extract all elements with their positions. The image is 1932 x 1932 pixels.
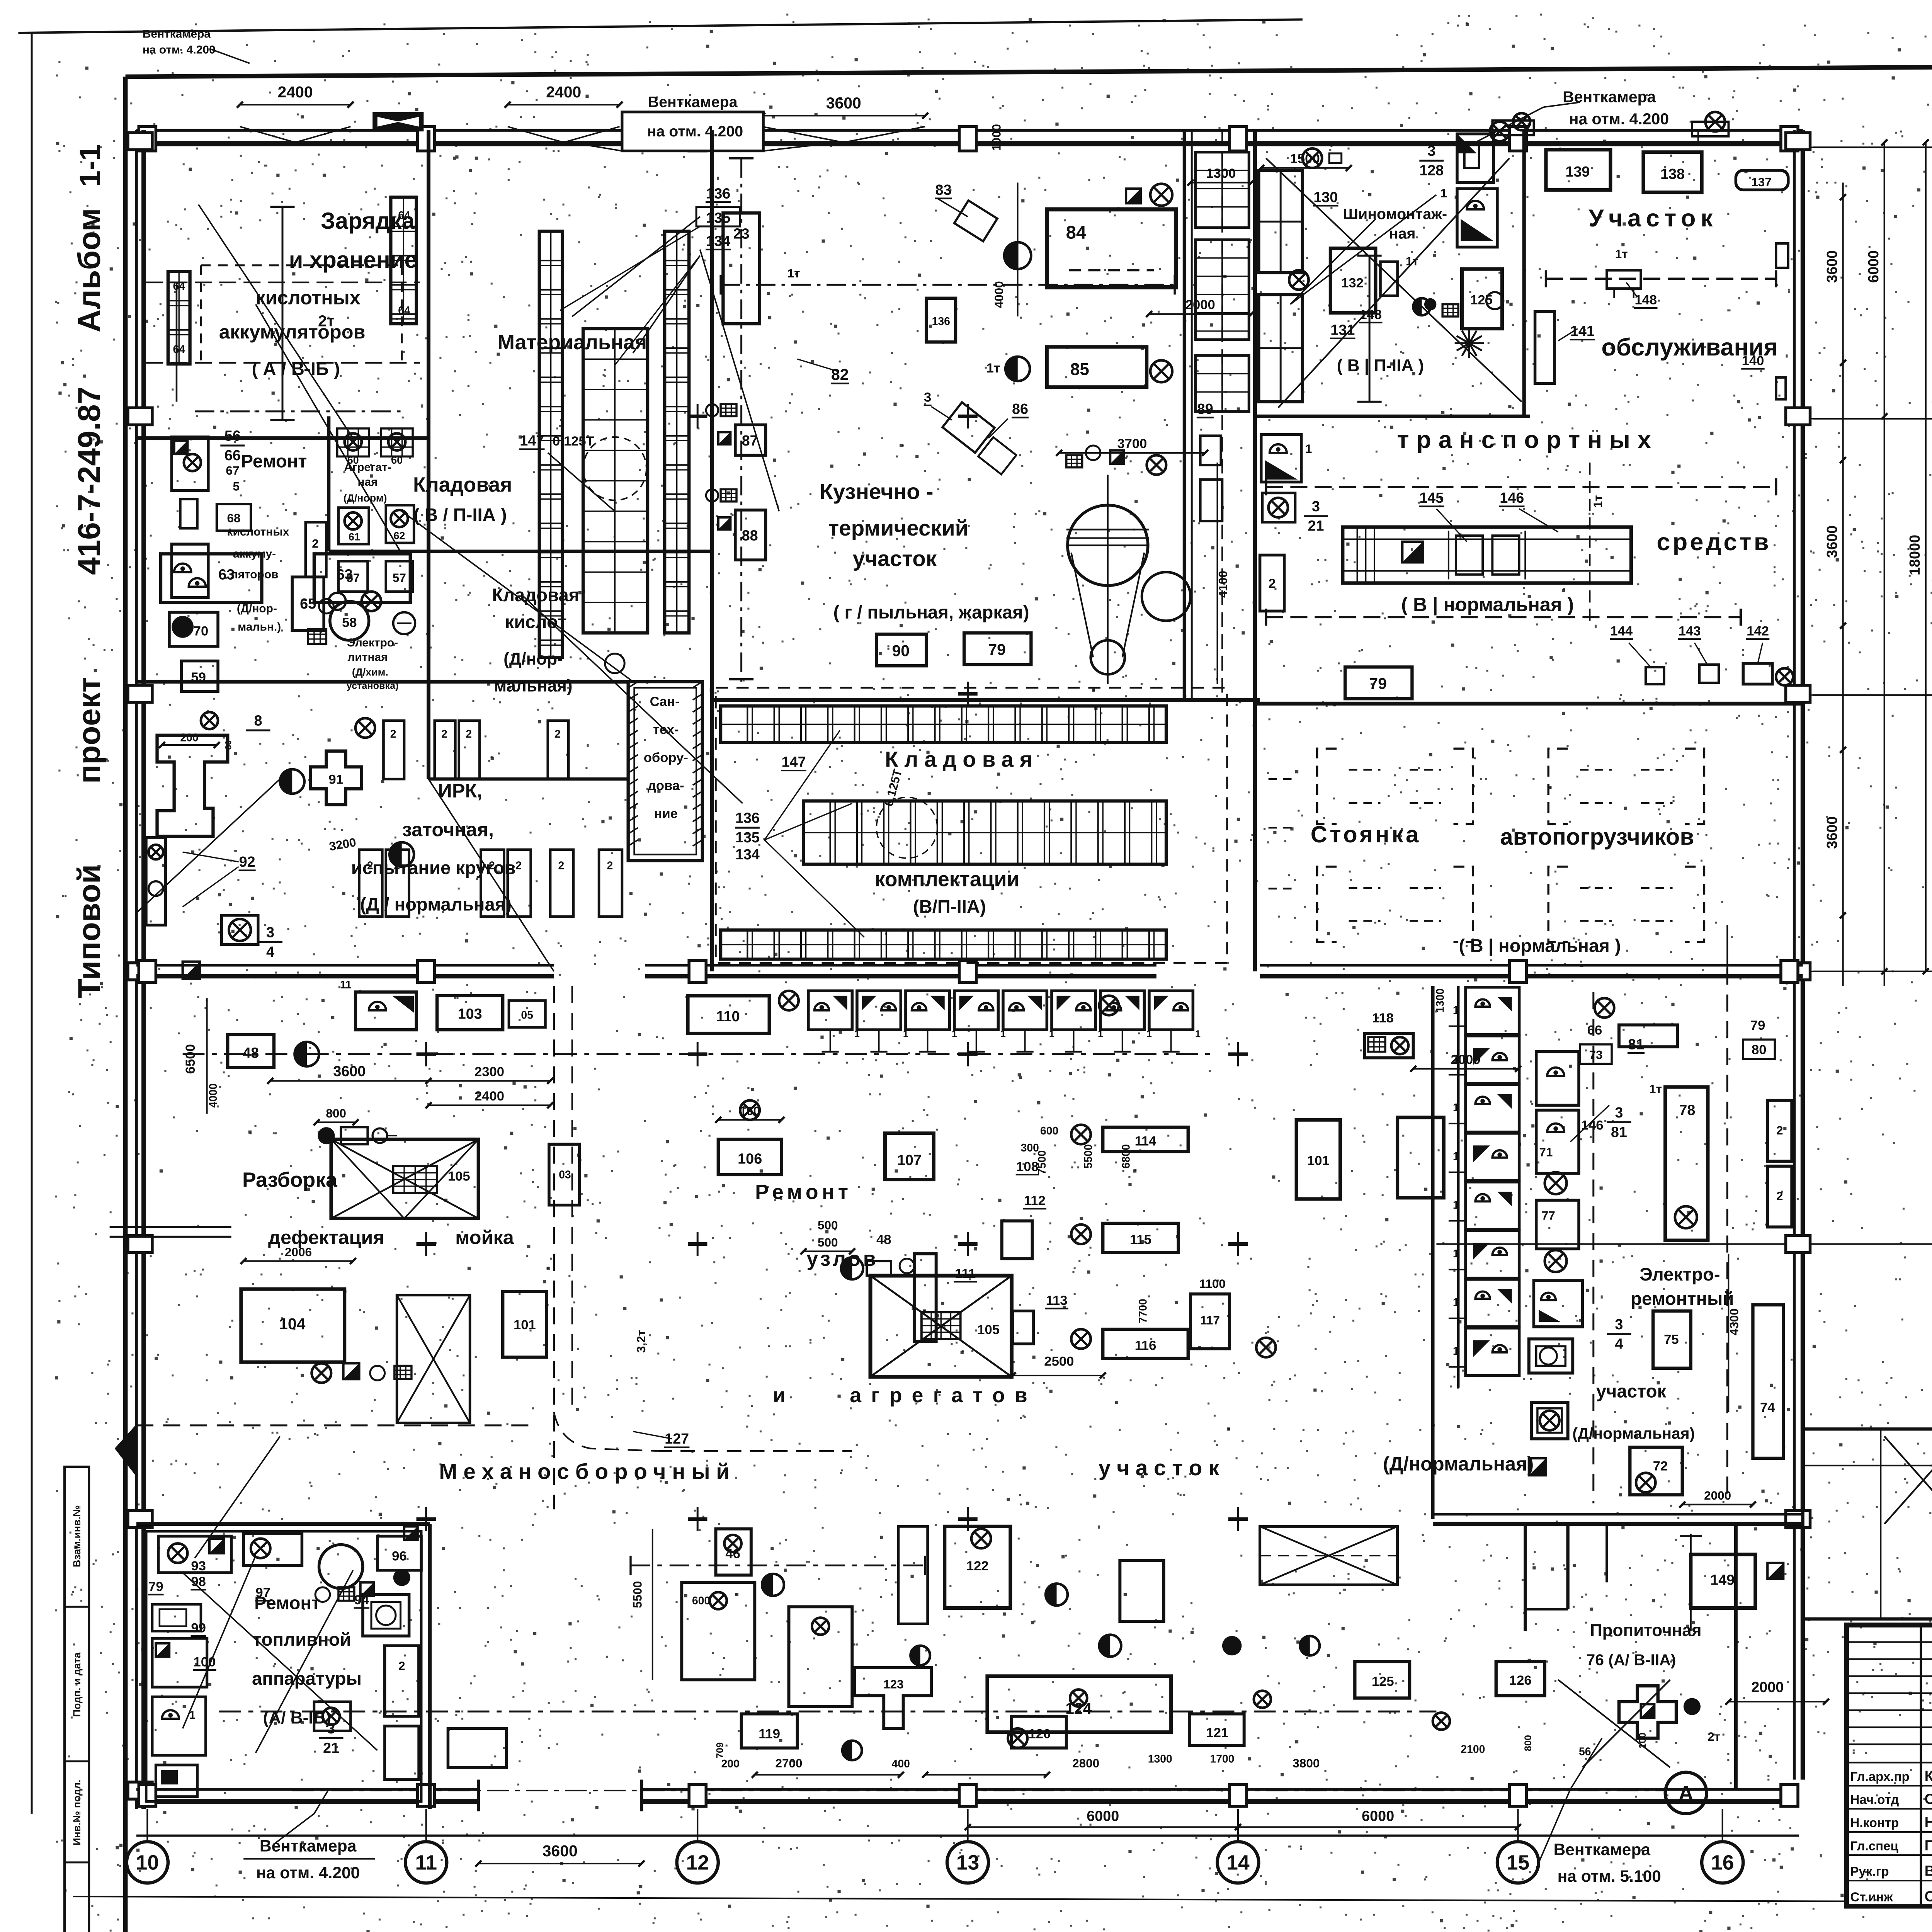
equipment: forge-thermal section xyxy=(723,213,760,324)
svg-text:1т: 1т xyxy=(1649,1082,1662,1096)
svg-text:113: 113 xyxy=(1046,1293,1068,1308)
svg-text:2: 2 xyxy=(1776,1123,1783,1137)
svg-text:на отм. 4.200: на отм. 4.200 xyxy=(143,44,216,56)
shelving racks 134-136 xyxy=(721,706,1166,743)
svg-text:136: 136 xyxy=(932,315,950,328)
svg-text:14: 14 xyxy=(1226,1852,1250,1874)
svg-text:93: 93 xyxy=(191,1559,206,1573)
svg-text:600: 600 xyxy=(1040,1125,1058,1137)
svg-text:67: 67 xyxy=(226,464,239,478)
svg-text:101: 101 xyxy=(514,1318,536,1332)
svg-text:1т: 1т xyxy=(787,266,800,280)
svg-text:86: 86 xyxy=(1012,401,1028,417)
svg-text:56: 56 xyxy=(224,428,241,444)
svg-text:3600: 3600 xyxy=(826,94,861,112)
svg-text:136: 136 xyxy=(735,810,760,827)
svg-text:2: 2 xyxy=(466,728,472,740)
svg-text:58: 58 xyxy=(342,615,357,630)
svg-text:127: 127 xyxy=(665,1431,689,1447)
svg-text:143: 143 xyxy=(1679,624,1701,638)
svg-text:2800: 2800 xyxy=(1072,1756,1099,1770)
svg-text:литная: литная xyxy=(347,651,388,664)
svg-text:84: 84 xyxy=(1066,222,1087,243)
svg-text:транспортных: транспортных xyxy=(1397,426,1658,453)
svg-text:мальн.): мальн.) xyxy=(238,621,281,633)
svg-text:1: 1 xyxy=(1305,442,1312,456)
svg-text:68: 68 xyxy=(227,511,240,525)
svg-text:148: 148 xyxy=(1359,307,1382,322)
svg-text:мальная): мальная) xyxy=(494,676,572,695)
svg-text:2: 2 xyxy=(558,859,565,872)
svg-text:75: 75 xyxy=(1664,1332,1679,1347)
svg-text:119: 119 xyxy=(759,1727,780,1742)
svg-text:83: 83 xyxy=(935,182,952,198)
svg-text:21: 21 xyxy=(1308,518,1324,534)
svg-text:64: 64 xyxy=(398,209,410,222)
svg-text:118: 118 xyxy=(1372,1011,1394,1026)
svg-text:104: 104 xyxy=(279,1315,306,1333)
svg-text:138: 138 xyxy=(1660,166,1685,182)
svg-text:1: 1 xyxy=(1453,1150,1459,1163)
svg-text:2: 2 xyxy=(489,859,495,872)
svg-text:62: 62 xyxy=(394,530,405,542)
svg-text:установка): установка) xyxy=(347,680,399,691)
svg-text:79: 79 xyxy=(1369,675,1387,692)
svg-text:108: 108 xyxy=(1016,1160,1039,1174)
svg-text:1300: 1300 xyxy=(1434,988,1446,1013)
svg-text:Павлов: Павлов xyxy=(1925,1837,1932,1854)
svg-text:142: 142 xyxy=(1747,624,1769,638)
svg-text:146: 146 xyxy=(1500,490,1524,506)
svg-text:2: 2 xyxy=(441,728,447,740)
svg-text:117: 117 xyxy=(1200,1313,1220,1327)
svg-text:3600: 3600 xyxy=(1824,250,1840,283)
svg-text:1: 1 xyxy=(1453,1248,1459,1260)
machine 78 xyxy=(1665,1087,1708,1240)
svg-text:132: 132 xyxy=(1341,276,1364,290)
svg-text:124: 124 xyxy=(1065,1700,1092,1718)
svg-text:80: 80 xyxy=(224,740,233,750)
svg-text:1: 1 xyxy=(1453,1102,1459,1114)
svg-text:3600: 3600 xyxy=(333,1063,366,1080)
svg-text:105: 105 xyxy=(448,1169,470,1184)
svg-text:Материальная: Материальная xyxy=(497,331,647,354)
svg-text:130: 130 xyxy=(1313,189,1338,206)
svg-text:1100: 1100 xyxy=(1199,1277,1226,1291)
washing machine 105 xyxy=(331,1139,478,1219)
svg-text:66: 66 xyxy=(1587,1023,1602,1038)
svg-text:Пропиточная: Пропиточная xyxy=(1590,1621,1702,1640)
svg-text:6800: 6800 xyxy=(1120,1144,1133,1168)
svg-text:3,2т: 3,2т xyxy=(634,1330,648,1353)
svg-text:комплектации: комплектации xyxy=(875,868,1020,891)
svg-text:( В / П-IIА ): ( В / П-IIА ) xyxy=(413,505,507,525)
svg-text:1: 1 xyxy=(1440,186,1447,200)
svg-text:на отм. 4.200: на отм. 4.200 xyxy=(1569,110,1669,128)
svg-text:Кузнечно -: Кузнечно - xyxy=(820,480,933,504)
svg-text:( В | нормальная ): ( В | нормальная ) xyxy=(1401,593,1574,616)
equipment: tool-grinding room xyxy=(157,735,228,836)
svg-text:200: 200 xyxy=(180,731,198,744)
svg-text:0,125Т: 0,125Т xyxy=(553,434,594,449)
svg-text:2000: 2000 xyxy=(1751,1679,1784,1696)
svg-text:123: 123 xyxy=(883,1677,904,1691)
svg-text:57: 57 xyxy=(393,571,406,585)
svg-text:1: 1 xyxy=(1453,1296,1459,1309)
svg-text:(В/П-IIА): (В/П-IIА) xyxy=(913,897,986,917)
svg-text:64: 64 xyxy=(173,344,185,356)
svg-text:103: 103 xyxy=(458,1006,482,1022)
svg-text:6000: 6000 xyxy=(1866,250,1882,283)
svg-text:Подп. и дата: Подп. и дата xyxy=(71,1652,83,1717)
svg-text:116: 116 xyxy=(1135,1338,1156,1353)
svg-text:03: 03 xyxy=(559,1168,571,1181)
svg-text:2500: 2500 xyxy=(1044,1354,1074,1369)
svg-text:500: 500 xyxy=(818,1235,838,1249)
svg-text:66: 66 xyxy=(224,447,241,464)
svg-text:Взам.инв.№: Взам.инв.№ xyxy=(71,1505,83,1567)
svg-text:ремонтный: ремонтный xyxy=(1631,1289,1734,1309)
svg-text:1т: 1т xyxy=(986,361,1000,376)
machine 124 xyxy=(987,1676,1171,1732)
svg-text:105: 105 xyxy=(977,1323,1000,1337)
svg-text:148: 148 xyxy=(1634,293,1657,308)
svg-text:2: 2 xyxy=(554,728,561,740)
svg-text:99: 99 xyxy=(191,1621,206,1635)
svg-text:12: 12 xyxy=(686,1852,709,1874)
svg-text:Николаев: Николаев xyxy=(1925,1814,1932,1830)
svg-text:300: 300 xyxy=(1021,1142,1039,1154)
svg-text:( В | нормальная ): ( В | нормальная ) xyxy=(1459,935,1621,956)
svg-text:2: 2 xyxy=(390,728,396,740)
svg-text:Сан-: Сан- xyxy=(650,694,680,709)
svg-text:61: 61 xyxy=(349,531,360,543)
svg-text:80: 80 xyxy=(1752,1043,1767,1057)
svg-text:2: 2 xyxy=(367,859,373,872)
svg-text:М е х а н о с б о р о ч н ы й: М е х а н о с б о р о ч н ы й xyxy=(439,1460,730,1484)
svg-text:Ремонт: Ремонт xyxy=(241,451,307,472)
svg-text:4: 4 xyxy=(266,944,274,960)
svg-text:проект: проект xyxy=(71,677,107,784)
svg-text:3600: 3600 xyxy=(543,1842,578,1860)
svg-text:85: 85 xyxy=(1070,360,1089,379)
svg-text:4: 4 xyxy=(1615,1336,1623,1352)
svg-text:79: 79 xyxy=(988,641,1006,658)
svg-text:Венткамера: Венткамера xyxy=(143,28,211,41)
svg-text:97: 97 xyxy=(255,1585,270,1600)
svg-text:128: 128 xyxy=(1419,163,1444,179)
svg-text:144: 144 xyxy=(1610,624,1633,638)
svg-text:Гл.спец: Гл.спец xyxy=(1850,1839,1898,1853)
svg-text:200: 200 xyxy=(721,1758,740,1770)
svg-text:ная: ная xyxy=(357,476,378,488)
svg-text:Инв.№ подл.: Инв.№ подл. xyxy=(71,1780,83,1845)
svg-text:и: и xyxy=(773,1384,786,1407)
storage rack 147 xyxy=(539,231,563,658)
svg-text:145: 145 xyxy=(1419,490,1444,506)
svg-text:16: 16 xyxy=(1711,1852,1734,1874)
equipment: battery charging rooms top-left xyxy=(168,271,190,364)
svg-text:аккумуляторов: аккумуляторов xyxy=(219,321,366,343)
svg-text:78: 78 xyxy=(1679,1102,1695,1119)
svg-text:1: 1 xyxy=(1453,1004,1459,1017)
svg-text:96: 96 xyxy=(392,1549,407,1564)
svg-text:106: 106 xyxy=(738,1151,762,1167)
svg-text:Типовой: Типовой xyxy=(71,864,107,998)
svg-text:5500: 5500 xyxy=(630,1581,644,1608)
svg-text:81: 81 xyxy=(1628,1036,1644,1053)
svg-text:137: 137 xyxy=(1751,175,1772,189)
svg-text:(Д/нормальная): (Д/нормальная) xyxy=(1383,1452,1534,1475)
svg-text:ние: ние xyxy=(654,806,678,821)
svg-text:участок: участок xyxy=(853,547,937,571)
svg-text:77: 77 xyxy=(1542,1209,1555,1223)
svg-text:1т: 1т xyxy=(1591,495,1605,508)
svg-text:111: 111 xyxy=(955,1267,976,1281)
svg-text:11: 11 xyxy=(340,979,352,991)
svg-text:88: 88 xyxy=(742,528,758,544)
svg-text:112: 112 xyxy=(1024,1194,1046,1208)
svg-text:18000: 18000 xyxy=(1907,535,1923,575)
svg-text:10: 10 xyxy=(136,1852,159,1874)
svg-text:на отм. 5.100: на отм. 5.100 xyxy=(1558,1867,1661,1886)
svg-text:1-1: 1-1 xyxy=(74,145,106,187)
svg-text:60: 60 xyxy=(391,454,403,466)
svg-text:1300: 1300 xyxy=(1148,1753,1172,1765)
svg-text:Венткамера: Венткамера xyxy=(260,1837,357,1855)
svg-text:48: 48 xyxy=(876,1233,891,1247)
svg-text:Кладовая: Кладовая xyxy=(413,474,512,497)
svg-text:тех-: тех- xyxy=(653,723,679,737)
svg-text:1т: 1т xyxy=(1615,247,1628,261)
svg-text:72: 72 xyxy=(1653,1459,1668,1473)
svg-text:1300: 1300 xyxy=(1206,166,1236,181)
svg-text:3: 3 xyxy=(924,390,931,405)
svg-text:3800: 3800 xyxy=(1293,1756,1320,1770)
svg-text:115: 115 xyxy=(1130,1233,1151,1247)
svg-text:8: 8 xyxy=(254,713,262,729)
svg-text:2: 2 xyxy=(312,537,319,551)
svg-text:1: 1 xyxy=(1453,1345,1459,1357)
equipment: machine-assembly section xyxy=(437,996,503,1030)
svg-text:Соколова: Соколова xyxy=(1925,1889,1932,1905)
svg-text:( г / пыльная, жаркая): ( г / пыльная, жаркая) xyxy=(833,602,1029,622)
svg-text:2: 2 xyxy=(398,1659,405,1673)
svg-text:Венткамера: Венткамера xyxy=(1554,1841,1651,1859)
svg-text:134: 134 xyxy=(735,847,760,863)
axis circles and dimension chains xyxy=(1813,147,1932,148)
svg-text:70: 70 xyxy=(194,624,209,638)
svg-text:146: 146 xyxy=(1581,1118,1604,1133)
svg-text:121: 121 xyxy=(1206,1725,1228,1740)
svg-text:(Д/хим.: (Д/хим. xyxy=(352,666,388,678)
monorails and auxiliary details xyxy=(721,284,1175,285)
svg-text:122: 122 xyxy=(966,1559,989,1573)
equipment: fuel apparatus repair room xyxy=(158,1536,231,1573)
svg-text:3: 3 xyxy=(1312,498,1320,515)
title block (stamp) bottom right xyxy=(1847,1625,1932,1906)
svg-text:800: 800 xyxy=(326,1106,346,1120)
svg-text:Альбом: Альбом xyxy=(71,208,107,333)
svg-text:заточная,: заточная, xyxy=(402,818,494,840)
svg-text:11: 11 xyxy=(415,1852,437,1874)
svg-text:21: 21 xyxy=(323,1740,339,1756)
svg-text:140: 140 xyxy=(1742,354,1764,368)
svg-text:134: 134 xyxy=(706,233,730,249)
equipment: tyre-fitting room xyxy=(1259,170,1302,273)
svg-text:149: 149 xyxy=(1710,1572,1735,1588)
svg-text:3: 3 xyxy=(1427,143,1435,159)
impregnation machine 56 xyxy=(1619,1686,1676,1738)
svg-text:150: 150 xyxy=(740,1104,760,1118)
svg-text:Вождаев: Вождаев xyxy=(1925,1863,1932,1879)
svg-text:Кладовая: Кладовая xyxy=(885,748,1038,772)
svg-text:Рук.гр: Рук.гр xyxy=(1850,1864,1889,1879)
svg-text:709: 709 xyxy=(714,1742,725,1759)
svg-text:3600: 3600 xyxy=(1824,816,1840,849)
svg-text:Шиномонтаж-: Шиномонтаж- xyxy=(1343,206,1447,223)
svg-text:2400: 2400 xyxy=(278,83,313,101)
sheet frame, margins and page number xyxy=(18,19,1302,33)
svg-text:Ст.инж: Ст.инж xyxy=(1850,1890,1893,1905)
svg-text:(Д/нор-: (Д/нор- xyxy=(503,650,563,668)
svg-text:2000: 2000 xyxy=(1185,298,1215,312)
svg-text:15: 15 xyxy=(1507,1852,1530,1874)
svg-text:кислотных: кислотных xyxy=(256,287,361,309)
svg-text:139: 139 xyxy=(1565,164,1590,180)
equipment: forklift parking dashed outlines xyxy=(1317,748,1337,824)
svg-text:Сысоев: Сысоев xyxy=(1925,1791,1932,1808)
svg-text:обору-: обору- xyxy=(644,750,688,765)
svg-text:56: 56 xyxy=(1579,1746,1591,1758)
svg-text:2700: 2700 xyxy=(775,1756,802,1770)
svg-text:агрегатов: агрегатов xyxy=(850,1384,1037,1407)
svg-text:у ч а с т о к: у ч а с т о к xyxy=(1099,1456,1219,1480)
svg-text:1: 1 xyxy=(1453,1199,1459,1211)
svg-text:92: 92 xyxy=(239,854,255,870)
svg-text:79: 79 xyxy=(1750,1018,1765,1033)
svg-text:114: 114 xyxy=(1135,1134,1157,1148)
svg-text:Электро-: Электро- xyxy=(1639,1264,1720,1285)
svg-text:81: 81 xyxy=(1611,1124,1627,1140)
svg-text:( В | П-IIА ): ( В | П-IIА ) xyxy=(1337,356,1424,376)
svg-text:Гл.арх.пр: Гл.арх.пр xyxy=(1850,1770,1909,1784)
svg-text:126: 126 xyxy=(1509,1673,1532,1688)
svg-text:1: 1 xyxy=(1195,1029,1201,1039)
svg-text:1000: 1000 xyxy=(990,124,1003,151)
svg-text:Венткамера: Венткамера xyxy=(648,94,738,111)
svg-text:2300: 2300 xyxy=(474,1065,504,1079)
building walls and partitions xyxy=(136,130,1803,131)
equipment: vehicle service section xyxy=(1546,150,1611,190)
svg-text:3600: 3600 xyxy=(1824,526,1840,558)
svg-text:Нач.отд: Нач.отд xyxy=(1850,1793,1899,1807)
svg-text:13: 13 xyxy=(956,1852,980,1874)
svg-text:2: 2 xyxy=(1776,1189,1783,1203)
svg-text:2006: 2006 xyxy=(285,1245,312,1259)
svg-text:6000: 6000 xyxy=(1087,1808,1119,1825)
svg-text:3: 3 xyxy=(266,925,274,941)
svg-text:89: 89 xyxy=(1197,401,1213,417)
svg-text:5: 5 xyxy=(233,480,240,493)
svg-text:136: 136 xyxy=(706,185,730,202)
svg-text:Стоянка: Стоянка xyxy=(1311,821,1421,847)
svg-text:Участок: Участок xyxy=(1588,205,1718,232)
svg-text:2т: 2т xyxy=(1708,1730,1720,1743)
svg-text:1700: 1700 xyxy=(1210,1753,1234,1765)
svg-text:120: 120 xyxy=(1029,1727,1051,1742)
svg-text:термический: термический xyxy=(828,516,968,541)
press with flywheels xyxy=(1068,505,1148,585)
svg-text:59: 59 xyxy=(191,670,206,685)
svg-text:2: 2 xyxy=(1268,577,1276,591)
svg-text:2400: 2400 xyxy=(474,1089,504,1104)
svg-text:135: 135 xyxy=(735,830,760,846)
svg-text:4000: 4000 xyxy=(207,1083,219,1108)
svg-text:3: 3 xyxy=(1615,1105,1623,1121)
svg-text:2: 2 xyxy=(515,859,522,872)
svg-text:91: 91 xyxy=(328,772,344,787)
svg-text:(Д/нормальная): (Д/нормальная) xyxy=(1572,1425,1695,1442)
svg-text:ИРК,: ИРК, xyxy=(438,779,483,801)
svg-text:125: 125 xyxy=(1372,1674,1394,1689)
svg-text:1: 1 xyxy=(1453,1053,1459,1065)
svg-text:74: 74 xyxy=(1760,1400,1775,1415)
svg-text:6000: 6000 xyxy=(1362,1808,1394,1825)
svg-text:ляторов: ляторов xyxy=(231,568,279,581)
svg-text:Н.контр: Н.контр xyxy=(1850,1816,1899,1830)
svg-text:63: 63 xyxy=(218,567,235,583)
svg-text:416-7-249.87: 416-7-249.87 xyxy=(71,387,107,575)
svg-text:средств: средств xyxy=(1656,529,1771,556)
svg-text:на отм. 4.200: на отм. 4.200 xyxy=(647,123,743,140)
svg-text:топливной: топливной xyxy=(253,1629,351,1650)
svg-text:2100: 2100 xyxy=(1461,1743,1485,1755)
svg-text:600: 600 xyxy=(692,1595,710,1607)
machine 85 xyxy=(1047,347,1146,387)
svg-text:82: 82 xyxy=(831,366,849,383)
svg-text:Козьяков: Козьяков xyxy=(1925,1768,1932,1784)
svg-text:90: 90 xyxy=(892,642,910,660)
svg-text:147: 147 xyxy=(782,754,806,770)
svg-text:800: 800 xyxy=(1523,1735,1534,1751)
svg-text:76 (А/ В-IIА): 76 (А/ В-IIА) xyxy=(1586,1651,1676,1668)
svg-text:5500: 5500 xyxy=(1082,1144,1095,1168)
svg-text:110: 110 xyxy=(716,1009,740,1025)
svg-text:Разборка: Разборка xyxy=(242,1168,338,1191)
svg-text:автопогрузчиков: автопогрузчиков xyxy=(1500,824,1694,850)
conveyor 145/146 xyxy=(1343,527,1631,583)
svg-text:участок: участок xyxy=(1596,1381,1667,1401)
svg-text:3700: 3700 xyxy=(1117,436,1147,451)
machine 84 (furnace) xyxy=(1047,209,1176,287)
svg-text:дова-: дова- xyxy=(648,778,684,793)
svg-text:64: 64 xyxy=(398,304,410,317)
svg-text:1т: 1т xyxy=(1406,254,1418,268)
svg-text:2: 2 xyxy=(607,859,613,872)
svg-text:на отм. 4.200: на отм. 4.200 xyxy=(256,1864,360,1882)
svg-text:6500: 6500 xyxy=(183,1044,198,1074)
svg-text:05: 05 xyxy=(521,1009,533,1022)
svg-text:79: 79 xyxy=(148,1579,163,1594)
svg-text:107: 107 xyxy=(897,1152,922,1168)
svg-text:101: 101 xyxy=(1307,1153,1330,1168)
svg-text:71: 71 xyxy=(1539,1145,1553,1159)
svg-text:3: 3 xyxy=(1615,1316,1623,1333)
svg-text:( А / В-IБ ): ( А / В-IБ ) xyxy=(252,359,340,379)
equipment: corridor racks xyxy=(1196,152,1249,228)
svg-text:73: 73 xyxy=(1589,1048,1603,1062)
